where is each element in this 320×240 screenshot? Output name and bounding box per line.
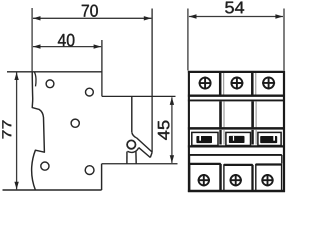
40 dimension line: [33, 46, 101, 48]
bottom terminal box 2 right edge thick: [251, 165, 253, 191]
77 bottom arrow: [14, 182, 18, 190]
front view bottom edge: [188, 190, 285, 192]
hole circle top-left: [46, 80, 54, 88]
step edge at top right of 40 section (with 40 extension above): [101, 40, 103, 96]
mid section divider faint lines: [224, 101, 256, 127]
45 top arrow: [170, 97, 174, 105]
toggle foot right side: [135, 151, 137, 164]
terminal screw bottom 2: [230, 174, 242, 186]
terminal screw bottom 1: [198, 174, 210, 186]
thick line under top terminal row: [188, 94, 285, 96]
toggle handle lower edge: [139, 148, 151, 158]
rocker row top thick line: [188, 127, 285, 130]
right edge of terminal block with 70 right extension: [151, 9, 153, 153]
band inset box right edge: [281, 155, 283, 164]
54 left arrow: [189, 14, 197, 18]
54 right arrow: [275, 14, 283, 18]
bottom notch horizontal edge with 45 bottom extension: [102, 163, 178, 165]
label 40: [58, 34, 75, 47]
bottom terminal box 3: [256, 165, 282, 191]
side view top edge with 77 top extension: [7, 71, 102, 73]
40 right arrow: [94, 44, 102, 48]
inner spring contour arc near top-left corner: [34, 72, 36, 86]
hole circle center: [71, 119, 79, 127]
toggle handle tip edge: [150, 152, 152, 157]
70 right arrow: [144, 16, 152, 20]
bottom notch vertical edge: [101, 164, 103, 190]
bottom terminal boxes top edge emphasis: [190, 164, 282, 165]
rocker inner box 1: [192, 132, 218, 145]
label 54: [225, 2, 244, 14]
hole circle bottom-left: [41, 162, 49, 170]
54 dimension line: [189, 16, 283, 18]
bottom terminal box 2: [224, 165, 252, 191]
top terminal row divider faint lines: [224, 73, 256, 95]
45 bottom arrow: [170, 155, 174, 163]
front view left edge: [188, 71, 190, 192]
side view bottom edge with 77 bottom extension: [3, 189, 102, 191]
70/40 left extension line: [31, 8, 33, 72]
terminal top edge with 45 top extension: [102, 95, 176, 97]
front view top edge: [188, 71, 285, 73]
hole circle bottom-center: [85, 166, 94, 175]
40 left arrow: [33, 44, 41, 48]
54 right extension line: [283, 9, 285, 71]
label 70: [82, 5, 98, 17]
toggle pivot ring: [127, 140, 135, 148]
rocker row divider thick lines: [221, 130, 253, 145]
top terminal row divider thick lines: [220, 73, 252, 95]
77 dimension line: [16, 72, 18, 189]
rocker row bottom thick line: [188, 145, 285, 147]
dimension texts as outlines: [2, 2, 244, 140]
toggle handle 2 black face: [229, 136, 245, 143]
second line under top terminal row: [188, 99, 285, 101]
toggle foot left side: [126, 152, 128, 164]
terminal screw top 1: [199, 77, 212, 90]
bottom terminal box 1: [190, 164, 221, 191]
band inset box left edge: [189, 155, 191, 164]
mid section divider thick lines: [221, 101, 253, 127]
face-to-handle corner arc: [132, 132, 137, 138]
toggle handle upper edge: [137, 138, 153, 152]
hole circle top-right: [86, 88, 94, 96]
thin band inset box: [190, 154, 282, 156]
toggle handle 1 black face: [196, 136, 212, 143]
terminal screw top 2: [231, 77, 244, 90]
front face line of body: [131, 96, 133, 132]
45 dimension line: [171, 97, 173, 163]
rocker inner box 3: [258, 132, 281, 145]
side view left back edge with DIN notches: [32, 72, 45, 190]
terminal screw bottom 3: [261, 174, 273, 186]
rocker row divider faint lines: [224, 130, 256, 145]
70 dimension line: [33, 17, 151, 19]
77 top arrow: [14, 72, 18, 80]
rocker inner box 2: [226, 132, 251, 145]
label 45 (rotated): [158, 121, 170, 140]
54 left extension line: [187, 9, 189, 71]
front view right edge: [283, 71, 285, 192]
toggle boss arc: [127, 148, 138, 153]
toggle handle 3 black face: [260, 136, 277, 143]
bottom terminal box 1 right edge thick: [219, 164, 221, 191]
terminal screw top 3: [262, 77, 275, 90]
70 left arrow: [33, 16, 41, 20]
label 77 (rotated): [2, 120, 11, 138]
